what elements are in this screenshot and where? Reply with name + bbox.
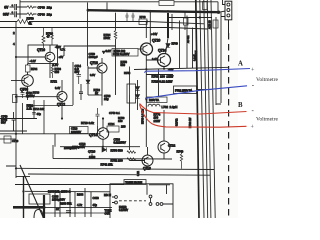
annotation red line B- bbox=[140, 104, 247, 115]
wire y118 bbox=[0, 118, 37, 120]
svg-text:50V: 50V bbox=[75, 70, 80, 74]
wire vertical x146 upper bbox=[145, 22, 147, 39]
svg-text:QT22: QT22 bbox=[168, 144, 176, 148]
svg-text:B: B bbox=[238, 102, 243, 109]
svg-text:R714 10k: R714 10k bbox=[33, 107, 45, 111]
wire x88 to x102 link bbox=[88, 94, 102, 96]
junction dot y17.5 bbox=[199, 16, 201, 18]
connector pin 2 bbox=[227, 9, 230, 12]
svg-text:R769 1W: R769 1W bbox=[189, 117, 192, 128]
svg-text:47μ: 47μ bbox=[37, 112, 42, 116]
wire bundle vertical 2 bbox=[200, 0, 204, 218]
resistor R738 bbox=[51, 64, 53, 79]
paper wash bbox=[0, 0, 238, 218]
transistor QT08 bbox=[22, 75, 34, 87]
inductor L702 bbox=[148, 104, 160, 106]
junction dots mid bbox=[15, 20, 165, 97]
capacitor C703 top bbox=[213, 20, 218, 28]
connector pin 3 bbox=[227, 14, 230, 17]
capacitor C750 bbox=[126, 13, 129, 22]
wire vertical x115 bbox=[115, 13, 117, 95]
wire vertical x187 bbox=[186, 16, 188, 69]
wire y74 stub bbox=[146, 74, 173, 76]
wire vertical x172 stub bbox=[171, 14, 173, 30]
svg-text:C716: C716 bbox=[79, 142, 86, 146]
component box 220V 5A bbox=[147, 97, 167, 103]
svg-text:R720 3.3k: R720 3.3k bbox=[81, 121, 94, 125]
svg-text:R742 15k: R742 15k bbox=[101, 163, 114, 167]
svg-text:A: A bbox=[238, 61, 243, 68]
wire x129 upper bbox=[129, 67, 131, 96]
wire x97 cap link bbox=[97, 126, 99, 134]
wire diagonal bottom-left bbox=[20, 165, 44, 218]
capacitor C738 bbox=[32, 113, 36, 115]
svg-text:Q718: Q718 bbox=[143, 167, 151, 171]
wire QT12 collector/emitter bbox=[61, 80, 63, 119]
wire Q724 collector bbox=[167, 13, 169, 38]
svg-text:Q720: Q720 bbox=[152, 39, 160, 43]
wire fuse out bbox=[197, 89, 212, 91]
wire Q718 leads bbox=[130, 147, 148, 161]
svg-text:AC 8Ω: AC 8Ω bbox=[187, 35, 190, 43]
svg-text:QT26: QT26 bbox=[88, 150, 96, 154]
capacitor C740 sym bbox=[12, 112, 16, 131]
wire stub x185 bbox=[184, 12, 186, 30]
wire vertical x73 bbox=[72, 62, 74, 105]
wire y174 bbox=[28, 174, 210, 175]
svg-text:Voltmetre: Voltmetre bbox=[256, 77, 278, 83]
svg-text:QT08: QT08 bbox=[20, 88, 28, 92]
wire vertical x44 bbox=[43, 100, 45, 134]
svg-text:Q724: Q724 bbox=[158, 49, 166, 53]
resistor R754 bbox=[127, 151, 136, 153]
svg-text:R716: R716 bbox=[33, 91, 40, 95]
diode D704 bbox=[102, 51, 105, 54]
svg-text:R758: R758 bbox=[124, 71, 131, 75]
resistor R750 bbox=[17, 20, 30, 24]
wire x55 stub bbox=[54, 134, 56, 147]
resistor R734 above QT08 bbox=[26, 65, 31, 72]
component box C724 bbox=[107, 126, 119, 132]
switch contact b bbox=[115, 201, 118, 204]
wire vertical x137 bbox=[137, 80, 139, 110]
wire vertical x146 mid bbox=[145, 69, 147, 108]
svg-text:Voltmetre: Voltmetre bbox=[256, 117, 278, 123]
svg-text:200: 200 bbox=[121, 125, 126, 129]
wire y17.5 rail bbox=[168, 17, 212, 19]
resistor R731 bbox=[51, 28, 54, 46]
svg-text:R666 20k 1N60×2: R666 20k 1N60×2 bbox=[48, 190, 71, 194]
wire y139 stub bbox=[0, 138, 16, 140]
svg-text:-: - bbox=[252, 107, 255, 115]
capacitor C714 bbox=[77, 68, 82, 84]
transistor QT10 bbox=[45, 52, 55, 62]
component box R666 bbox=[29, 194, 50, 204]
wire 6V row bbox=[10, 6, 37, 8]
svg-text:10μ: 10μ bbox=[104, 97, 109, 101]
wire vertical x22.5 bbox=[22, 103, 24, 134]
svg-text:220V 5A: 220V 5A bbox=[149, 98, 159, 102]
wire QT10 collector stub bbox=[49, 45, 51, 78]
fuse F702 bbox=[174, 86, 197, 94]
transistor Q724 bbox=[158, 54, 171, 67]
svg-text:R768 6.2 1W: R768 6.2 1W bbox=[141, 108, 145, 124]
svg-text:C746 0.1: C746 0.1 bbox=[109, 111, 120, 115]
switch contact c bbox=[149, 195, 152, 198]
junction dots lower bbox=[15, 117, 104, 147]
svg-text:-4.2V: -4.2V bbox=[30, 59, 36, 63]
capacitor C728 bbox=[79, 84, 83, 100]
svg-text:+0V: +0V bbox=[59, 55, 64, 59]
svg-text:R772: R772 bbox=[51, 80, 58, 84]
svg-text:8Ω/4Ω: 8Ω/4Ω bbox=[175, 118, 179, 126]
wire thick ground vertical bbox=[43, 195, 45, 218]
svg-text:36V: 36V bbox=[3, 13, 10, 17]
switch contact f bbox=[160, 203, 163, 206]
transistor QT14 bbox=[97, 128, 108, 139]
svg-text:C746 20μ: C746 20μ bbox=[38, 13, 53, 17]
wire connector down stub bbox=[228, 20, 230, 33]
svg-text:0.22: 0.22 bbox=[137, 171, 140, 176]
wire vertical x87 bbox=[87, 3, 89, 67]
wire Q716 emitter down bbox=[101, 73, 103, 106]
svg-text:50V: 50V bbox=[1, 121, 6, 125]
wire ground bus thin right bbox=[45, 207, 112, 209]
wire bundle top bend bbox=[147, 22, 208, 30]
wire y184.5 bbox=[15, 184, 170, 186]
diode D710 bbox=[102, 148, 106, 153]
svg-text:0.022/50V: 0.022/50V bbox=[114, 141, 126, 145]
svg-text:R750: R750 bbox=[27, 17, 35, 21]
wire Q720 base bbox=[138, 48, 143, 50]
wire y105.5 bbox=[27, 105, 73, 107]
svg-text:C724: C724 bbox=[108, 122, 115, 126]
resistor R702 (top box) bbox=[159, 1, 174, 6]
wire vertical x192.5 bbox=[192, 28, 194, 69]
wire vertical x129 bbox=[129, 95, 131, 150]
svg-text:0.4V: 0.4V bbox=[55, 87, 60, 90]
resistor R728 on x16 bbox=[13, 95, 18, 103]
transistor Q718 bbox=[142, 155, 153, 166]
wire Q724 collector thin bbox=[166, 38, 169, 54]
svg-text:+: + bbox=[251, 125, 255, 131]
transistor Q720 bbox=[141, 43, 153, 55]
svg-text:C720: C720 bbox=[12, 139, 19, 143]
switch contact a bbox=[115, 196, 118, 199]
wire pin3 feeder bbox=[221, 12, 225, 22]
wire bundle vertical 1 bbox=[196, 0, 199, 218]
transistor Q722 bbox=[158, 141, 170, 153]
capacitor C746 bbox=[15, 11, 17, 17]
dashed chassis line bbox=[228, 33, 230, 218]
svg-text:MB IN: MB IN bbox=[104, 194, 111, 197]
wire q726 stub bbox=[91, 154, 93, 159]
capacitor C748 bbox=[15, 4, 17, 10]
connector CN701 bbox=[225, 1, 232, 20]
wire thick ground bus bbox=[13, 206, 45, 209]
svg-text:C748 20μ: C748 20μ bbox=[38, 6, 53, 10]
svg-text:100/35V: 100/35V bbox=[71, 130, 81, 134]
wire Q720 emitter bbox=[145, 55, 147, 69]
svg-text:Q716: Q716 bbox=[90, 61, 98, 65]
transistor Q716 bbox=[97, 63, 107, 73]
wire y191 bbox=[25, 190, 110, 193]
svg-text:2.2k: 2.2k bbox=[27, 107, 33, 111]
wire y46 left segment bbox=[88, 45, 116, 47]
resistor R740 bbox=[180, 150, 182, 169]
wire bottom verticals bbox=[55, 188, 85, 217]
wire bundle vertical 7 bbox=[216, 22, 221, 104]
svg-text:47: 47 bbox=[47, 35, 51, 39]
svg-text:560: 560 bbox=[121, 63, 126, 67]
wire y168.5 bbox=[16, 168, 214, 169]
wire QT14 base link bbox=[97, 133, 100, 135]
capacitor C710 bbox=[96, 108, 100, 126]
relay box K701 bbox=[127, 84, 136, 103]
junction dots bottom bbox=[15, 167, 46, 209]
svg-text:C722 0.1/50V: C722 0.1/50V bbox=[113, 52, 130, 56]
wire thick supply bus bbox=[88, 10, 219, 12]
wire QT08 emitter bbox=[27, 86, 29, 100]
svg-text:0.6V: 0.6V bbox=[106, 49, 112, 53]
resistor R764 bbox=[114, 31, 117, 39]
wire Q722 leads bbox=[163, 135, 165, 159]
svg-text:0.1/30V: 0.1/30V bbox=[119, 208, 128, 212]
wire QT08 base bbox=[11, 80, 24, 82]
svg-text:+44V: +44V bbox=[151, 32, 158, 36]
wire Q720 collector bbox=[149, 11, 151, 43]
capacitor C734 bbox=[21, 89, 25, 98]
wire horizontal y27 bbox=[0, 27, 169, 29]
svg-text:R740: R740 bbox=[172, 42, 179, 46]
wire vertical x16 bbox=[15, 22, 17, 167]
transistor QT12 bbox=[57, 92, 67, 102]
svg-text:ACB 23: ACB 23 bbox=[209, 20, 212, 29]
svg-text:47μ: 47μ bbox=[93, 203, 98, 207]
capacitor C752 bbox=[132, 13, 135, 22]
wire QT14 leads bbox=[102, 119, 104, 148]
wire vertical x164 lower bbox=[163, 110, 165, 135]
wire vertical x179.5 bbox=[179, 21, 181, 69]
wire QT10 base bbox=[16, 56, 45, 58]
wire Q724 base emitter bbox=[146, 60, 164, 69]
wire vertical x23.5 bbox=[23, 176, 25, 218]
wire vertical x107 stub bbox=[106, 3, 108, 11]
resistor R736 bbox=[42, 28, 45, 49]
component box R760/C722 bbox=[112, 49, 138, 57]
svg-text:R740: R740 bbox=[177, 150, 184, 154]
resistor R726 bbox=[27, 6, 34, 9]
svg-text:1000μ/30V: 1000μ/30V bbox=[52, 198, 65, 202]
svg-text:+: + bbox=[251, 68, 255, 74]
svg-text:1μ/50V: 1μ/50V bbox=[26, 94, 35, 98]
wire bundle vertical 4 bbox=[207, 0, 211, 218]
resistor R724 bbox=[27, 13, 34, 16]
annotation blue line A+ bbox=[144, 69, 250, 73]
wire switch dashed link bbox=[119, 200, 146, 202]
svg-text:100k: 100k bbox=[104, 36, 111, 40]
capacitor C720 bbox=[4, 136, 11, 143]
svg-text:R664: R664 bbox=[77, 193, 84, 197]
svg-text:1000μ/10V: 1000μ/10V bbox=[64, 146, 77, 150]
wire center vertical x20 bbox=[19, 0, 21, 19]
svg-text:5k: 5k bbox=[29, 22, 33, 26]
diode D706 bbox=[135, 87, 139, 91]
svg-text:Q714: Q714 bbox=[89, 133, 97, 137]
annotation red line B+ bbox=[140, 105, 247, 128]
svg-text:R748: R748 bbox=[140, 16, 147, 19]
resistor R752 bbox=[127, 158, 136, 160]
capacitor C666 sym bbox=[66, 211, 71, 213]
wire bus to connector pin bbox=[219, 11, 226, 12]
resistor R711 bbox=[184, 18, 189, 25]
svg-text:R763: R763 bbox=[152, 75, 159, 79]
svg-text:C668: C668 bbox=[93, 196, 100, 200]
wire bundle vertical 5 bbox=[211, 0, 215, 218]
svg-text:100 1/2W: 100 1/2W bbox=[160, 75, 173, 79]
wire horizontal y21 bbox=[0, 21, 147, 23]
svg-text:1/2W: 1/2W bbox=[154, 119, 161, 123]
junction bus dots bbox=[87, 9, 221, 14]
wire y131 bbox=[0, 130, 27, 132]
wire QT12 base bbox=[16, 96, 59, 98]
svg-text:L702 2.2μH: L702 2.2μH bbox=[162, 105, 178, 109]
wire bottom cluster verticals bbox=[60, 192, 91, 218]
diode D712 bbox=[166, 44, 170, 48]
svg-text:R710 0.22 1/2W: R710 0.22 1/2W bbox=[152, 80, 173, 84]
wire 36V row bbox=[10, 13, 37, 15]
lamp arch bbox=[34, 210, 43, 219]
svg-text:0.47: 0.47 bbox=[152, 58, 157, 61]
wire corner at 64,46 bbox=[64, 46, 116, 56]
switch contact d bbox=[149, 203, 152, 206]
wire bundle vertical 3 bbox=[204, 0, 208, 218]
resistor R703 top bbox=[203, 2, 208, 10]
svg-text:1000μF: 1000μF bbox=[89, 55, 99, 59]
wire bracket y166 bbox=[6, 166, 16, 178]
wire bundle vertical 6 bbox=[215, 17, 217, 105]
label TONE MODE box bbox=[124, 180, 146, 185]
wire Q716 leads bbox=[88, 58, 102, 80]
diode D708 bbox=[135, 95, 139, 99]
wire pin1 feeder bbox=[223, 0, 226, 5]
svg-text:R754 500: R754 500 bbox=[111, 149, 124, 153]
connector pin 1 bbox=[227, 3, 230, 6]
svg-text:QT10: QT10 bbox=[37, 48, 45, 52]
switch contact e bbox=[156, 203, 159, 206]
wire block box bottom bbox=[53, 145, 172, 159]
wire vertical x158 bbox=[158, 69, 160, 97]
amplifier box QT10 bbox=[28, 45, 58, 64]
wire vertical x88 diode branch bbox=[87, 66, 89, 95]
svg-text:150: 150 bbox=[118, 119, 123, 123]
svg-text:4.7k: 4.7k bbox=[77, 203, 83, 207]
wire switch links bbox=[112, 184, 173, 204]
svg-text:AC OUT: AC OUT bbox=[195, 50, 198, 60]
svg-text:330: 330 bbox=[55, 70, 60, 74]
wire vertical x146 lower bbox=[145, 108, 147, 147]
switch box S701 bbox=[110, 184, 173, 219]
svg-text:4.7k: 4.7k bbox=[60, 48, 66, 52]
diode D702 bbox=[86, 80, 90, 84]
svg-text:R734: R734 bbox=[31, 67, 38, 71]
resistor R746 bbox=[139, 19, 147, 25]
junction dots x146 bbox=[145, 99, 147, 112]
annotation blue line A- bbox=[145, 86, 247, 99]
wire y133.8 bbox=[0, 133, 97, 135]
wire y213 bbox=[45, 212, 110, 214]
svg-text:-1.6V: -1.6V bbox=[52, 63, 58, 67]
wire vertical x34 bbox=[33, 100, 35, 119]
wire top rail bbox=[20, 2, 218, 11]
wire QT08 collector bbox=[27, 64, 29, 75]
wire y66 horizontal bbox=[134, 67, 229, 69]
svg-text:0.5V: 0.5V bbox=[90, 74, 95, 77]
capacitor box C718 bbox=[70, 127, 89, 134]
svg-text:-: - bbox=[252, 81, 255, 89]
wire y146.5 bbox=[60, 146, 140, 148]
wire y176.5 stub bbox=[16, 176, 30, 178]
